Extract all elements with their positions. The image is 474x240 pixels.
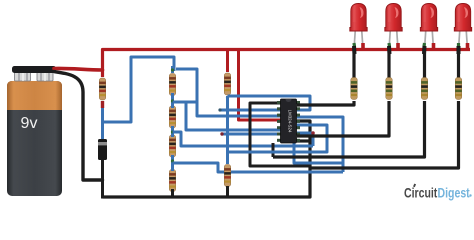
svg-text:Circuit: Circuit	[404, 185, 437, 201]
wire blue box A bottom	[294, 140, 343, 163]
wire battery positive (red lead)	[54, 68, 103, 70]
resistor R6 (sense divider bottom)	[224, 165, 231, 187]
wire blue feedback box C	[297, 133, 313, 146]
battery BT1 9V body	[7, 81, 62, 196]
svg-text:LM324-S24: LM324-S24	[288, 110, 293, 133]
wire battery negative (black lead)	[54, 72, 103, 181]
wire black sense divider to ground	[226, 186, 229, 198]
wire blue sense node over IC	[228, 96, 311, 110]
wire blue sense to IC pin	[220, 109, 281, 112]
LED D3	[385, 4, 402, 49]
wire blue zener node to divider top loop	[103, 57, 175, 122]
wire blue tap1 extension to x197	[186, 101, 197, 104]
resistor R10	[455, 78, 462, 100]
wire black LED4 cathode down	[457, 47, 460, 79]
divider ladder: resistor R2	[169, 74, 176, 96]
LED D5	[454, 4, 471, 49]
IC U1 LM324	[277, 99, 300, 143]
wire black LED3 cathode down	[423, 47, 426, 79]
resistor R5 (sense divider top)	[224, 73, 231, 95]
black cathode sleeves	[354, 46, 459, 54]
wire red to IC pin V+	[239, 50, 282, 121]
resistor R3	[169, 106, 176, 128]
wire ladder junctions (blue)	[171, 66, 174, 171]
LED D2	[350, 4, 367, 49]
wire blue tap top node right	[176, 69, 281, 116]
wire black zener to ground bus	[101, 160, 104, 199]
wire blue tap3	[173, 163, 344, 172]
zener diode D1	[98, 139, 107, 163]
wire black LED2 cathode down	[387, 47, 390, 79]
wire blue short stub to IC pin	[222, 133, 281, 136]
LED D4	[420, 4, 437, 49]
stub endpoint dot	[220, 132, 223, 135]
wire red drop to R5	[226, 50, 229, 73]
resistor R7	[351, 78, 358, 100]
wire black LED1 to IC out	[297, 101, 354, 105]
wire black ground bottom bus	[103, 121, 311, 197]
ladder bend dots	[171, 68, 229, 162]
resistor R8	[386, 78, 393, 100]
resistor R4	[169, 135, 176, 157]
wire blue tap1 to IC	[173, 102, 282, 130]
wire black LED4 to IC out	[310, 101, 459, 168]
wire black IC pin1 loop to ground	[250, 103, 310, 166]
resistor R5b	[169, 170, 176, 192]
wire blue zener node	[101, 101, 104, 141]
wire red LED anode sleeves	[363, 43, 468, 51]
CircuitDigest logo	[404, 184, 472, 201]
wire black ground stub 2	[297, 139, 310, 142]
red lead sleeve below R1	[101, 101, 104, 108]
wire blue feedback box A	[297, 117, 343, 172]
wire black LED1 cathode down	[352, 47, 355, 79]
wire black IC bottom stub	[272, 143, 275, 157]
wire black ladder bottom to ground	[171, 189, 174, 198]
resistor R9	[421, 78, 428, 100]
wire red +V top bus	[103, 50, 471, 78]
wire black LED3 to IC out	[273, 101, 425, 157]
svg-text:9v: 9v	[21, 115, 38, 132]
wire black LED2 to IC out	[297, 101, 389, 136]
battery clip bar	[12, 66, 56, 73]
wire green LED cathode sleeves	[354, 43, 459, 47]
wire blue feedback box B	[228, 125, 328, 152]
battery terminal connectors	[15, 72, 54, 81]
resistor R1 (zener series)	[99, 78, 106, 100]
red junction dot	[311, 131, 315, 135]
svg-text:Digest: Digest	[438, 185, 470, 201]
wire blue sense node vertical	[226, 96, 229, 164]
wire blue tap2 jog down to under-IC run	[173, 132, 314, 146]
